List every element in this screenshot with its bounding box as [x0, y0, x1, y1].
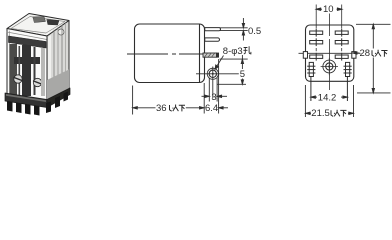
relay front face (transparent case) [7, 29, 47, 104]
inner case line left [9, 31, 11, 96]
coil blade right (vertical) [344, 62, 352, 76]
center boss circle [321, 58, 338, 75]
right side tab [352, 52, 356, 59]
coil pin extension marks through body edge [311, 77, 348, 102]
dimension 5 (vertical, right) [217, 55, 248, 84]
center dark column [22, 45, 31, 96]
mounting hole circle [207, 68, 218, 79]
svg-text:3: 3 [211, 92, 216, 103]
relay pins [7, 101, 13, 112]
svg-text:36: 36 [156, 103, 167, 114]
28以下 bottom extension line [357, 92, 391, 94]
pin 1 (top blade) [205, 28, 221, 31]
relay top face [7, 14, 69, 37]
horizontal arm of mechanism [14, 57, 40, 64]
left side tab [303, 52, 307, 59]
svg-text:10: 10 [323, 4, 334, 15]
small arrow to side tab [353, 52, 360, 54]
relay body outline (side view) [135, 24, 205, 83]
pin 2 [205, 38, 220, 41]
coil blade left (vertical) [307, 62, 315, 76]
28以下 top extension line [356, 23, 391, 25]
以下 glyphs (36以下) [170, 105, 186, 112]
leader arrow to hole [215, 56, 223, 70]
dimension 6.4 (pin length) [219, 107, 228, 109]
pin 3 (sectioned, hatched) [203, 53, 219, 58]
dimension 0.5 (pin thickness) [220, 18, 248, 41]
dimension 21.5以下 [306, 112, 354, 114]
dimension 10 (top) [316, 8, 342, 10]
body horizontal center line [299, 52, 361, 54]
dim 36以下 extension lines [133, 59, 219, 114]
pin row3 center line [127, 53, 204, 55]
svg-text:8-φ3: 8-φ3 [223, 46, 243, 57]
right face circle detail [58, 29, 64, 35]
column center lines [316, 5, 342, 52]
dimension 3 (hole dia) [202, 78, 228, 102]
blade row3 right [335, 53, 348, 61]
孔 glyph [243, 46, 251, 54]
dim 21.5以下 extension lines [305, 85, 353, 117]
svg-text:14.2: 14.2 [318, 93, 337, 104]
dimension 14.2 [311, 96, 348, 98]
svg-text:28: 28 [360, 48, 371, 59]
svg-text:5: 5 [240, 69, 245, 80]
right face [47, 21, 69, 104]
side face lower shade [47, 70, 69, 104]
dimension 36以下 [133, 107, 204, 109]
以下 glyphs (21.5以下) [331, 110, 347, 117]
hole center line horizontal [196, 73, 246, 75]
screw terminal left [14, 75, 22, 83]
top face rim line [11, 17, 65, 34]
body outline (bottom view) [306, 25, 354, 81]
blade row1 left [310, 29, 323, 37]
base top light strip [6, 94, 46, 102]
blade row1 right [335, 29, 348, 37]
dimension 28以下 vertical [372, 24, 374, 93]
relay base front (dark) [5, 93, 47, 108]
svg-text:6.4: 6.4 [205, 103, 218, 114]
svg-text:21.5: 21.5 [311, 108, 330, 119]
blade row2 right [335, 38, 348, 46]
coil block left [10, 44, 18, 95]
front face top rim line [7, 32, 47, 40]
body vertical center line [328, 14, 330, 91]
relay top label block right [47, 20, 59, 26]
screw terminal right [33, 78, 41, 86]
relay base right (dark) [47, 88, 70, 108]
svg-text:0.5: 0.5 [248, 26, 261, 37]
case seam line [199, 25, 201, 83]
blade row3 left [310, 53, 323, 61]
hole center line vertical [212, 67, 214, 99]
以下 glyphs (28以下) [372, 50, 388, 57]
armature dark bar [9, 36, 47, 48]
blade row2 left [310, 38, 323, 46]
thin spring line [19, 46, 21, 95]
right face highlight [48, 35, 51, 102]
relay top label block left [33, 17, 46, 23]
side face terminal lines [53, 30, 55, 98]
right strip shading [41, 48, 45, 96]
